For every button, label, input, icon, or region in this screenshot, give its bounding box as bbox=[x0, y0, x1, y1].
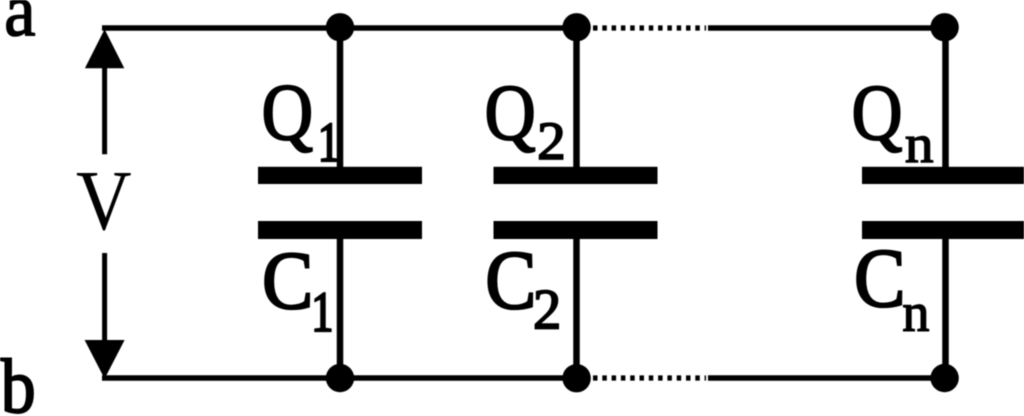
svg-text:C: C bbox=[262, 235, 313, 326]
svg-text:Q: Q bbox=[485, 69, 536, 157]
svg-text:b: b bbox=[1, 343, 36, 416]
junction node dot bottom of Cn bbox=[930, 364, 958, 392]
capacitor C2 bottom plate bbox=[494, 221, 658, 239]
svg-text:1: 1 bbox=[318, 111, 340, 173]
junction node dot bottom of C2 bbox=[562, 364, 590, 392]
capacitor Cn bottom plate (runs off right edge) bbox=[862, 221, 1024, 239]
capacitor C2 top plate bbox=[494, 167, 658, 184]
wire: top bus solid segment to Cn junction bbox=[708, 25, 945, 31]
wire: bottom bus dotted continuation segment bbox=[593, 375, 706, 380]
svg-text:C: C bbox=[854, 233, 905, 324]
voltage arrow up head at node a bbox=[85, 29, 124, 68]
wire: bottom bus solid segment from node b corner through C1 and C2 junctions bbox=[102, 375, 584, 381]
capacitor Cn top plate (runs off right edge) bbox=[862, 167, 1024, 184]
wire: C2 top lead bbox=[573, 28, 580, 167]
voltage arrow upper shaft bbox=[102, 64, 107, 154]
wire: C1 top lead bbox=[337, 28, 344, 167]
voltage arrow lower shaft bbox=[102, 253, 107, 342]
wire: bottom bus solid segment to Cn junction bbox=[708, 375, 945, 381]
junction node dot top of C1 bbox=[326, 13, 354, 41]
wire: Cn bottom lead bbox=[942, 239, 949, 378]
wire: C2 bottom lead bbox=[573, 239, 580, 378]
svg-text:n: n bbox=[905, 116, 934, 175]
wire: top bus solid segment from node a corner through C1 and C2 junctions bbox=[102, 25, 584, 31]
junction node dot top of Cn bbox=[930, 13, 958, 41]
junction node dot bottom of C1 bbox=[326, 364, 354, 392]
svg-text:2: 2 bbox=[533, 278, 561, 341]
svg-text:1: 1 bbox=[311, 282, 333, 344]
wire: C1 bottom lead bbox=[337, 239, 344, 378]
svg-text:a: a bbox=[4, 0, 35, 52]
svg-text:Q: Q bbox=[852, 69, 903, 157]
svg-text:C: C bbox=[485, 234, 536, 327]
voltage arrow down head at node b bbox=[85, 340, 125, 379]
capacitor C1 bottom plate bbox=[258, 221, 422, 239]
svg-text:V: V bbox=[76, 152, 132, 248]
svg-text:Q: Q bbox=[262, 68, 313, 157]
svg-text:n: n bbox=[902, 281, 929, 343]
svg-text:2: 2 bbox=[537, 111, 566, 171]
wire: top bus dotted continuation segment bbox=[593, 25, 706, 30]
capacitor C1 top plate bbox=[258, 167, 422, 184]
wire: Cn top lead bbox=[942, 28, 949, 167]
junction node dot top of C2 bbox=[562, 13, 590, 41]
